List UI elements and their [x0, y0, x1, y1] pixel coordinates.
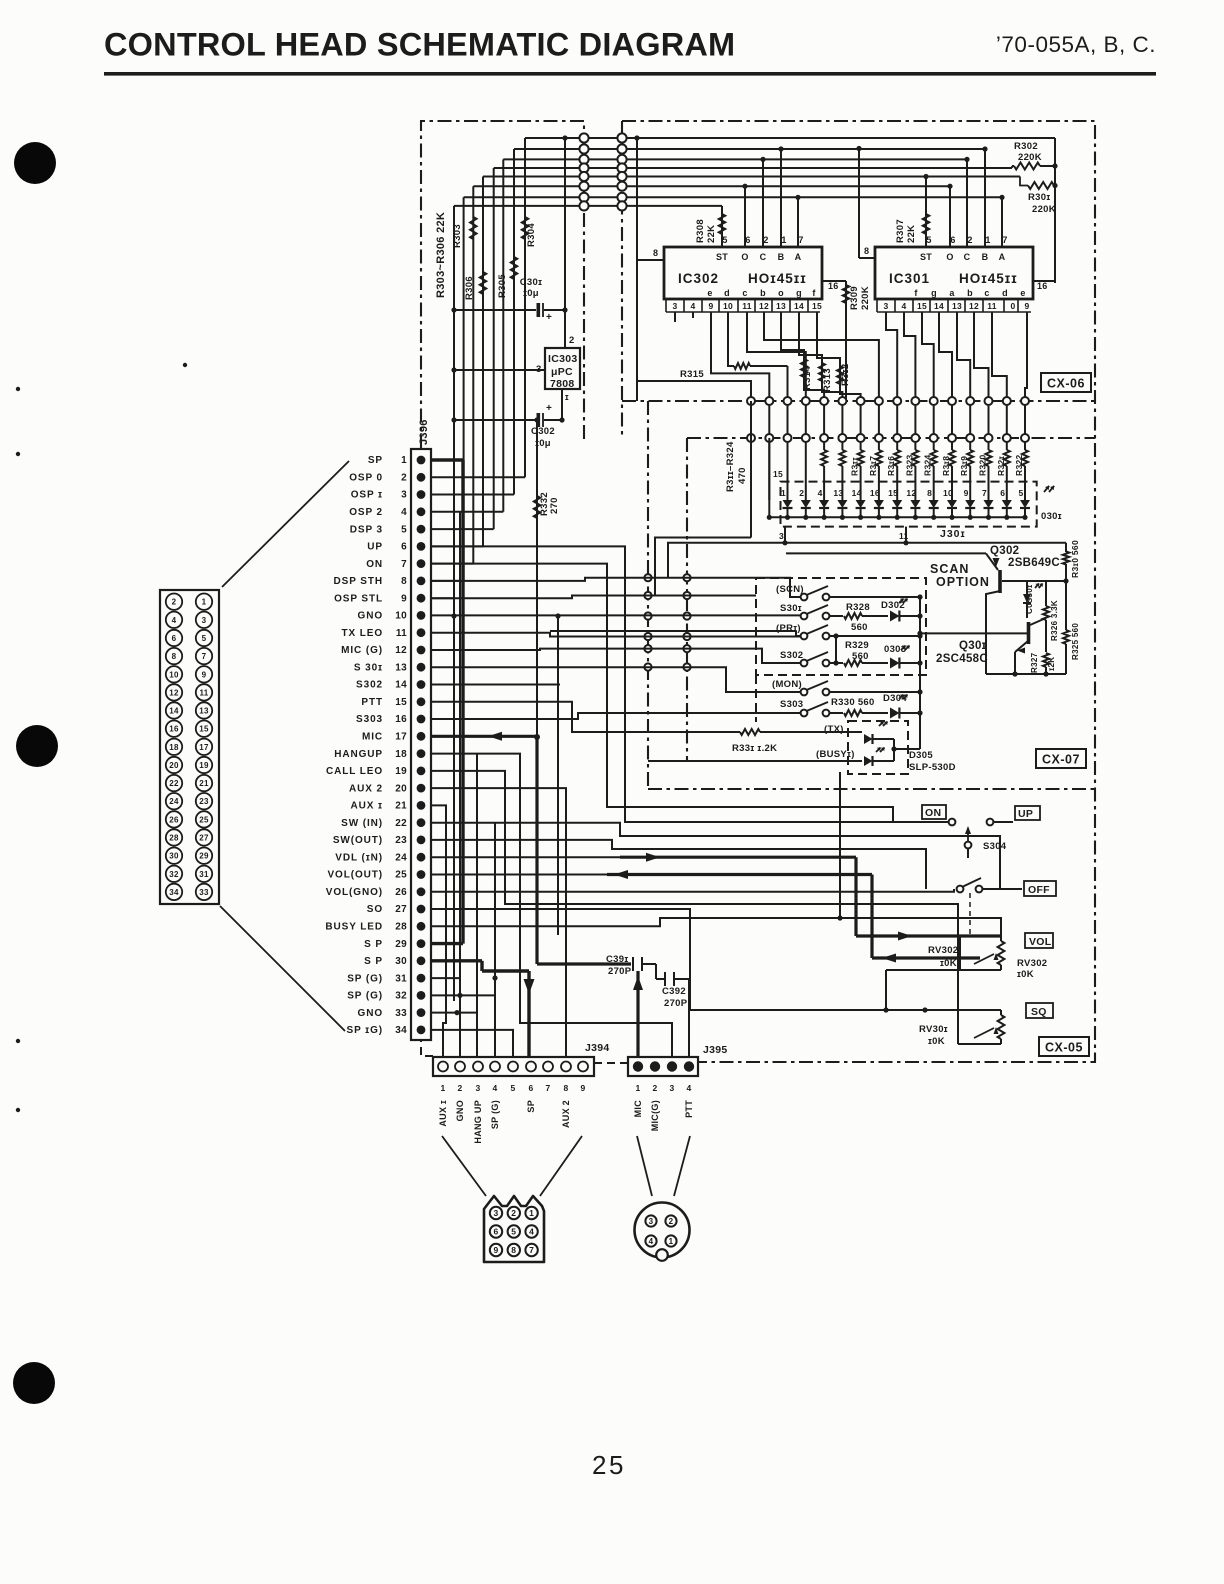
svg-text:13: 13: [776, 301, 786, 311]
svg-text:R3ɪ0 560: R3ɪ0 560: [1070, 540, 1080, 578]
svg-text:13: 13: [395, 662, 407, 673]
svg-text:16: 16: [395, 714, 407, 725]
svg-text:14: 14: [169, 707, 179, 716]
svg-text:22: 22: [395, 818, 407, 829]
svg-text:23: 23: [395, 835, 407, 846]
svg-text:UP: UP: [1018, 808, 1033, 820]
svg-text:S P: S P: [364, 939, 383, 950]
svg-text:3: 3: [669, 1083, 674, 1093]
svg-text:R3ɪ6: R3ɪ6: [886, 456, 896, 476]
svg-text:8: 8: [511, 1245, 516, 1255]
svg-text:CALL LEO: CALL LEO: [326, 766, 383, 777]
svg-text:VOL: VOL: [1029, 936, 1052, 948]
svg-text:7: 7: [1002, 235, 1007, 245]
svg-text:S303: S303: [780, 699, 803, 710]
svg-text:OSP 0: OSP 0: [349, 473, 383, 484]
svg-text:SLP-530D: SLP-530D: [909, 762, 956, 773]
svg-text:SP: SP: [368, 455, 383, 466]
svg-text:2: 2: [172, 598, 177, 607]
svg-text:e: e: [707, 288, 712, 298]
svg-text:R305: R305: [497, 274, 508, 298]
svg-text:’70-055A, B, C.: ’70-055A, B, C.: [996, 32, 1156, 57]
svg-text:ST: ST: [716, 252, 728, 262]
svg-text:2SC458C: 2SC458C: [936, 653, 988, 665]
svg-text:1: 1: [669, 1237, 674, 1246]
svg-text:7: 7: [529, 1245, 534, 1255]
svg-text:8: 8: [172, 652, 177, 661]
svg-text:9: 9: [964, 488, 969, 498]
svg-text:27: 27: [199, 834, 209, 843]
svg-text:D305: D305: [909, 750, 933, 761]
svg-text:3: 3: [493, 1208, 498, 1218]
svg-text:31: 31: [395, 973, 407, 984]
svg-text:6: 6: [493, 1227, 498, 1237]
svg-text:1: 1: [635, 1083, 640, 1093]
svg-text:SP (G): SP (G): [490, 1100, 500, 1129]
svg-text:20: 20: [169, 761, 179, 770]
svg-text:SW (IN): SW (IN): [341, 818, 383, 829]
svg-text:SQ: SQ: [1031, 1006, 1047, 1018]
svg-text:b: b: [760, 288, 766, 298]
svg-text:4: 4: [690, 301, 695, 311]
svg-text:GNO: GNO: [358, 1008, 383, 1019]
svg-text:14: 14: [794, 301, 804, 311]
svg-text:15: 15: [917, 301, 927, 311]
svg-text:PTT: PTT: [361, 697, 383, 708]
svg-text:MIC: MIC: [633, 1100, 643, 1118]
svg-text:16: 16: [1037, 281, 1048, 291]
svg-text:S302: S302: [780, 650, 803, 661]
svg-text:7808: 7808: [550, 378, 575, 390]
svg-text:R3ɪ9: R3ɪ9: [959, 456, 969, 476]
svg-text:6: 6: [528, 1083, 533, 1093]
svg-text:270P: 270P: [608, 966, 632, 977]
svg-text:23: 23: [199, 797, 209, 806]
svg-text:5: 5: [202, 634, 207, 643]
svg-text:J396: J396: [418, 419, 430, 445]
svg-text:10: 10: [395, 611, 407, 622]
svg-text:R313: R313: [822, 368, 833, 392]
svg-text:IC302: IC302: [678, 271, 719, 286]
svg-text:C39ɪ: C39ɪ: [606, 954, 628, 965]
svg-text:6: 6: [950, 235, 955, 245]
svg-text:12: 12: [759, 301, 769, 311]
svg-text:ɪ2K: ɪ2K: [1047, 657, 1056, 671]
svg-text:OSP STL: OSP STL: [334, 593, 383, 604]
svg-text:R3ɪɪ–R324: R3ɪɪ–R324: [725, 441, 736, 492]
svg-text:R309: R309: [849, 286, 860, 310]
svg-text:a: a: [949, 288, 955, 298]
svg-text:DSP 3: DSP 3: [350, 524, 383, 535]
svg-text:14: 14: [934, 301, 944, 311]
svg-text:3: 3: [649, 1217, 654, 1226]
svg-text:SP: SP: [526, 1100, 536, 1113]
svg-text:11: 11: [899, 531, 909, 541]
svg-text:2: 2: [457, 1083, 462, 1093]
svg-text:26: 26: [169, 815, 179, 824]
svg-text:25: 25: [199, 815, 209, 824]
svg-text:15: 15: [888, 488, 898, 498]
svg-text:14: 14: [852, 488, 862, 498]
svg-text:4: 4: [818, 488, 823, 498]
svg-text:RV30ɪ: RV30ɪ: [919, 1024, 948, 1035]
svg-text:S P: S P: [364, 956, 383, 967]
svg-text:12: 12: [969, 301, 979, 311]
svg-text:3: 3: [672, 301, 677, 311]
svg-text:1: 1: [781, 488, 786, 498]
svg-text:11: 11: [987, 301, 997, 311]
svg-text:9: 9: [1024, 301, 1029, 311]
svg-text:22: 22: [169, 779, 179, 788]
svg-text:12: 12: [395, 645, 407, 656]
svg-text:3: 3: [202, 616, 207, 625]
svg-text:7: 7: [798, 235, 803, 245]
svg-text:b: b: [967, 288, 973, 298]
svg-text:5: 5: [511, 1227, 516, 1237]
svg-text:B: B: [778, 252, 785, 262]
svg-text:28: 28: [395, 922, 407, 933]
svg-text:9: 9: [708, 301, 713, 311]
svg-text:5: 5: [1018, 488, 1023, 498]
svg-text:ST: ST: [920, 252, 932, 262]
svg-text:560: 560: [852, 651, 869, 662]
svg-text:S30ɪ: S30ɪ: [780, 603, 802, 614]
svg-text:O: O: [946, 252, 953, 262]
svg-text:26: 26: [395, 887, 407, 898]
svg-text:25: 25: [395, 870, 407, 881]
svg-text:R32ɪ: R32ɪ: [996, 456, 1006, 476]
svg-text:6: 6: [1000, 488, 1005, 498]
svg-text:HANG UP: HANG UP: [473, 1100, 483, 1144]
svg-text:8: 8: [653, 248, 658, 258]
svg-text:A: A: [795, 252, 802, 262]
svg-text:HOɪ45ɪɪ: HOɪ45ɪɪ: [959, 271, 1018, 286]
svg-text:ɪ: ɪ: [565, 392, 569, 402]
svg-text:0: 0: [1010, 301, 1015, 311]
svg-text:C: C: [760, 252, 767, 262]
svg-text:4: 4: [529, 1227, 534, 1237]
svg-text:24: 24: [395, 852, 407, 863]
svg-text:J30ɪ: J30ɪ: [940, 528, 966, 540]
svg-text:S 30ɪ: S 30ɪ: [354, 662, 383, 673]
svg-text:15: 15: [199, 725, 209, 734]
svg-text:ɪ0μ: ɪ0μ: [523, 288, 539, 299]
svg-text:19: 19: [199, 761, 209, 770]
svg-text:c: c: [742, 288, 747, 298]
svg-text:4: 4: [649, 1237, 654, 1246]
svg-text:VOL(OUT): VOL(OUT): [327, 870, 383, 881]
svg-text:CONTROL HEAD SCHEMATIC DIAGRAM: CONTROL HEAD SCHEMATIC DIAGRAM: [104, 27, 735, 63]
svg-text:18: 18: [169, 743, 179, 752]
svg-text:S303: S303: [356, 714, 383, 725]
svg-text:030ɪ: 030ɪ: [1041, 511, 1062, 522]
svg-text:29: 29: [199, 852, 209, 861]
svg-text:D304: D304: [883, 693, 907, 704]
svg-text:IC303: IC303: [548, 353, 578, 365]
svg-text:GNO: GNO: [358, 611, 383, 622]
svg-text:SCAN: SCAN: [930, 562, 969, 576]
svg-text:PTT: PTT: [684, 1100, 694, 1118]
svg-text:270P: 270P: [664, 998, 688, 1009]
svg-text:14: 14: [395, 680, 407, 691]
svg-text:2: 2: [652, 1083, 657, 1093]
svg-text:9: 9: [493, 1245, 498, 1255]
svg-text:15: 15: [773, 469, 783, 479]
svg-text:19: 19: [395, 766, 407, 777]
svg-text:TX LEO: TX LEO: [341, 628, 383, 639]
svg-text:CX-05: CX-05: [1045, 1041, 1083, 1055]
svg-text:4: 4: [686, 1083, 691, 1093]
svg-text:R328: R328: [846, 602, 870, 613]
svg-text:GNO: GNO: [455, 1100, 465, 1121]
svg-text:+: +: [546, 312, 552, 323]
svg-text:AUX ɪ: AUX ɪ: [351, 801, 383, 812]
svg-text:o: o: [778, 288, 784, 298]
svg-text:33: 33: [199, 888, 209, 897]
svg-text:CX-07: CX-07: [1042, 753, 1080, 767]
svg-text:R326 3.3K: R326 3.3K: [1050, 600, 1059, 641]
svg-text:17: 17: [199, 743, 209, 752]
svg-text:AUX 2: AUX 2: [561, 1100, 571, 1128]
svg-text:15: 15: [395, 697, 407, 708]
svg-text:2: 2: [569, 335, 575, 346]
svg-text:SO: SO: [367, 904, 383, 915]
svg-text:R320: R320: [978, 454, 988, 476]
svg-text:220K: 220K: [1032, 204, 1056, 215]
svg-text:R3ɪɪ: R3ɪɪ: [850, 457, 860, 476]
svg-text:220K: 220K: [860, 286, 871, 310]
svg-text:e: e: [1020, 288, 1025, 298]
svg-text:S304: S304: [983, 841, 1007, 852]
svg-text:30: 30: [395, 956, 407, 967]
svg-text:R322: R322: [1014, 454, 1024, 476]
svg-text:12: 12: [169, 688, 179, 697]
svg-text:31: 31: [199, 870, 209, 879]
svg-text:g: g: [796, 288, 802, 298]
svg-text:IC301: IC301: [889, 271, 930, 286]
svg-text:2: 2: [967, 235, 972, 245]
svg-text:5: 5: [510, 1083, 515, 1093]
svg-text:R314: R314: [802, 366, 813, 390]
svg-text:d: d: [1002, 288, 1008, 298]
svg-text:0303: 0303: [884, 644, 906, 655]
svg-text:SW(OUT): SW(OUT): [333, 835, 383, 846]
svg-text:13: 13: [952, 301, 962, 311]
svg-text:ɪ0K: ɪ0K: [1017, 969, 1034, 980]
svg-text:HANGUP: HANGUP: [334, 749, 383, 760]
svg-text:R302: R302: [1014, 141, 1038, 152]
svg-text:g: g: [931, 288, 937, 298]
svg-text:ɪ0K: ɪ0K: [928, 1036, 945, 1047]
svg-text:R306: R306: [464, 276, 475, 300]
svg-text:8: 8: [864, 246, 869, 256]
svg-text:2: 2: [799, 488, 804, 498]
svg-text:VOL(GNO): VOL(GNO): [326, 887, 383, 898]
svg-text:6: 6: [172, 634, 177, 643]
svg-text:28: 28: [169, 834, 179, 843]
svg-text:29: 29: [395, 939, 407, 950]
svg-text:ON: ON: [366, 559, 383, 570]
svg-text:4: 4: [401, 507, 407, 518]
svg-text:8: 8: [563, 1083, 568, 1093]
svg-text:16: 16: [828, 281, 839, 291]
svg-text:R307: R307: [895, 219, 906, 243]
svg-text:RV302: RV302: [1017, 958, 1047, 969]
svg-text:16: 16: [169, 725, 179, 734]
svg-text:2: 2: [669, 1217, 674, 1226]
svg-text:34: 34: [169, 888, 179, 897]
svg-text:8: 8: [927, 488, 932, 498]
svg-text:OSP ɪ: OSP ɪ: [351, 490, 383, 501]
svg-text:7: 7: [982, 488, 987, 498]
svg-text:MIC (G): MIC (G): [341, 645, 383, 656]
svg-text:(PRɪ): (PRɪ): [776, 623, 801, 634]
svg-text:R327: R327: [1030, 652, 1039, 673]
svg-text:1: 1: [440, 1083, 445, 1093]
svg-text:B: B: [982, 252, 989, 262]
svg-text:RV302: RV302: [928, 945, 958, 956]
svg-text:d: d: [724, 288, 730, 298]
svg-text:MIC: MIC: [362, 732, 383, 743]
svg-text:15: 15: [812, 301, 822, 311]
svg-text:4: 4: [901, 301, 906, 311]
svg-text:27: 27: [395, 904, 407, 915]
svg-text:1: 1: [202, 598, 207, 607]
svg-text:11: 11: [199, 688, 208, 697]
svg-text:5: 5: [722, 235, 727, 245]
svg-text:S302: S302: [356, 680, 383, 691]
svg-text:R303~R306 22K: R303~R306 22K: [435, 212, 447, 298]
svg-text:J395: J395: [703, 1044, 728, 1056]
svg-text:6: 6: [745, 235, 750, 245]
svg-text:R323: R323: [904, 454, 914, 476]
svg-text:C: C: [964, 252, 971, 262]
svg-text:1: 1: [401, 455, 407, 466]
svg-text:μPC: μPC: [551, 366, 573, 378]
svg-text:4: 4: [492, 1083, 497, 1093]
svg-text:7: 7: [545, 1083, 550, 1093]
svg-text:R308: R308: [695, 219, 706, 243]
svg-text:12: 12: [906, 488, 916, 498]
svg-text:CX-06: CX-06: [1047, 377, 1085, 391]
svg-text:R325 560: R325 560: [1071, 623, 1080, 660]
svg-text:(MON): (MON): [772, 679, 802, 690]
svg-text:OFF: OFF: [1028, 884, 1050, 896]
svg-text:16: 16: [870, 488, 880, 498]
svg-text:AUX 2: AUX 2: [349, 783, 383, 794]
svg-text:C392: C392: [662, 986, 686, 997]
svg-text:7: 7: [401, 559, 407, 570]
svg-text:HOɪ45ɪɪ: HOɪ45ɪɪ: [748, 271, 807, 286]
svg-text:J394: J394: [585, 1042, 610, 1054]
svg-text:AUX ɪ: AUX ɪ: [438, 1100, 448, 1127]
svg-text:R33ɪ ɪ.2K: R33ɪ ɪ.2K: [732, 743, 777, 754]
svg-text:c: c: [984, 288, 989, 298]
svg-text:30: 30: [169, 852, 179, 861]
svg-text:20: 20: [395, 783, 407, 794]
svg-text:3: 3: [475, 1083, 480, 1093]
svg-text:C0S30ɪ: C0S30ɪ: [1025, 584, 1034, 614]
svg-text:10: 10: [723, 301, 733, 311]
svg-text:5: 5: [401, 524, 407, 535]
svg-text:SP ɪG): SP ɪG): [347, 1025, 384, 1036]
svg-text:8: 8: [401, 576, 407, 587]
svg-text:R3ɪ8: R3ɪ8: [941, 456, 951, 476]
svg-text:11: 11: [742, 301, 752, 311]
svg-text:10: 10: [169, 670, 179, 679]
svg-text:32: 32: [169, 870, 179, 879]
svg-text:6: 6: [401, 542, 407, 553]
svg-text:O: O: [741, 252, 748, 262]
svg-text:3: 3: [779, 531, 784, 541]
svg-text:33: 33: [395, 1008, 407, 1019]
svg-text:R329: R329: [845, 640, 869, 651]
svg-text:2: 2: [763, 235, 768, 245]
svg-text:17: 17: [395, 732, 407, 743]
svg-text:2: 2: [511, 1208, 516, 1218]
svg-text:D302: D302: [881, 600, 905, 611]
svg-text:3: 3: [401, 490, 407, 501]
svg-text:2: 2: [401, 473, 407, 484]
svg-text:3: 3: [883, 301, 888, 311]
svg-text:5: 5: [926, 235, 931, 245]
svg-text:560: 560: [851, 622, 868, 633]
svg-text:MIC(G): MIC(G): [650, 1100, 660, 1131]
svg-text:32: 32: [395, 991, 407, 1002]
svg-text:SP (G): SP (G): [347, 973, 383, 984]
svg-text:22K: 22K: [906, 225, 917, 243]
svg-text:7: 7: [202, 652, 207, 661]
svg-text:ɪ0K: ɪ0K: [940, 958, 957, 969]
svg-text:R3ɪ2: R3ɪ2: [840, 364, 851, 386]
svg-text:34: 34: [395, 1025, 407, 1036]
svg-text:9: 9: [401, 593, 407, 604]
svg-text:R315: R315: [680, 369, 704, 380]
svg-text:A: A: [999, 252, 1006, 262]
svg-text:DSP STH: DSP STH: [334, 576, 383, 587]
svg-text:1: 1: [529, 1208, 534, 1218]
svg-text:SP (G): SP (G): [347, 991, 383, 1002]
svg-text:2SB649C: 2SB649C: [1008, 557, 1060, 569]
svg-text:470: 470: [737, 467, 748, 484]
svg-text:13: 13: [833, 488, 843, 498]
svg-text:UP: UP: [367, 542, 383, 553]
svg-text:Q302: Q302: [990, 545, 1019, 557]
svg-text:OSP 2: OSP 2: [349, 507, 383, 518]
svg-text:VDL (ɪN): VDL (ɪN): [335, 852, 383, 863]
svg-text:R3ɪ7: R3ɪ7: [868, 456, 878, 476]
svg-text:1: 1: [781, 235, 786, 245]
svg-text:R304: R304: [526, 223, 537, 247]
svg-text:BUSY LED: BUSY LED: [325, 922, 383, 933]
svg-text:ON: ON: [925, 807, 941, 819]
svg-text:270: 270: [549, 497, 560, 514]
svg-text:9: 9: [580, 1083, 585, 1093]
svg-text:R324: R324: [923, 454, 933, 476]
svg-text:4: 4: [172, 616, 177, 625]
svg-text:R330 560: R330 560: [831, 697, 875, 708]
svg-text:+: +: [546, 403, 552, 414]
svg-text:1: 1: [985, 235, 990, 245]
svg-text:(BUSYɪ): (BUSYɪ): [816, 749, 855, 760]
svg-text:220K: 220K: [1018, 152, 1042, 163]
svg-text:C302: C302: [531, 426, 555, 437]
svg-text:R30ɪ: R30ɪ: [1028, 192, 1050, 203]
svg-text:9: 9: [202, 670, 207, 679]
svg-text:10: 10: [943, 488, 953, 498]
svg-text:C30ɪ: C30ɪ: [520, 277, 542, 288]
svg-text:(TX): (TX): [824, 724, 844, 735]
